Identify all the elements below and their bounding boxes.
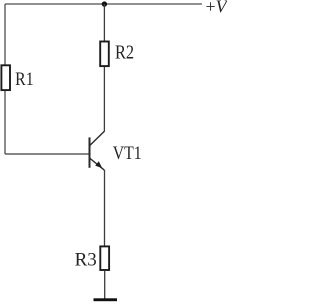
transistor VT1 emitter arrowhead — [95, 161, 102, 168]
wire: left branch from rail down to base node — [4, 4, 6, 154]
svg-text:R1: R1 — [15, 68, 33, 90]
wire: base wire to transistor — [5, 153, 89, 155]
svg-text:+V: +V — [206, 0, 228, 17]
svg-text:R3: R3 — [75, 250, 97, 271]
wire: R3 bottom down to ground — [104, 271, 106, 299]
junction dot (rail / R2 node) — [102, 1, 107, 6]
transistor VT1 emitter diagonal — [90, 158, 105, 170]
transistor VT1 collector diagonal — [90, 131, 105, 146]
svg-text:R2: R2 — [115, 41, 134, 63]
transistor VT1 base bar — [89, 137, 91, 167]
ground — [94, 298, 118, 301]
transistor VT1 (NPN) — [90, 131, 105, 170]
resistor R2 — [100, 42, 109, 67]
wire: R2 bottom down to collector — [103, 67, 105, 132]
svg-text:VT1: VT1 — [113, 141, 142, 163]
wire: emitter down to R3 top — [104, 170, 106, 246]
resistor R1 — [1, 65, 10, 90]
resistor R3 — [100, 246, 109, 270]
wire: junction down to R2 top — [103, 4, 105, 41]
wire: +V supply rail (top horizontal) — [5, 3, 202, 5]
